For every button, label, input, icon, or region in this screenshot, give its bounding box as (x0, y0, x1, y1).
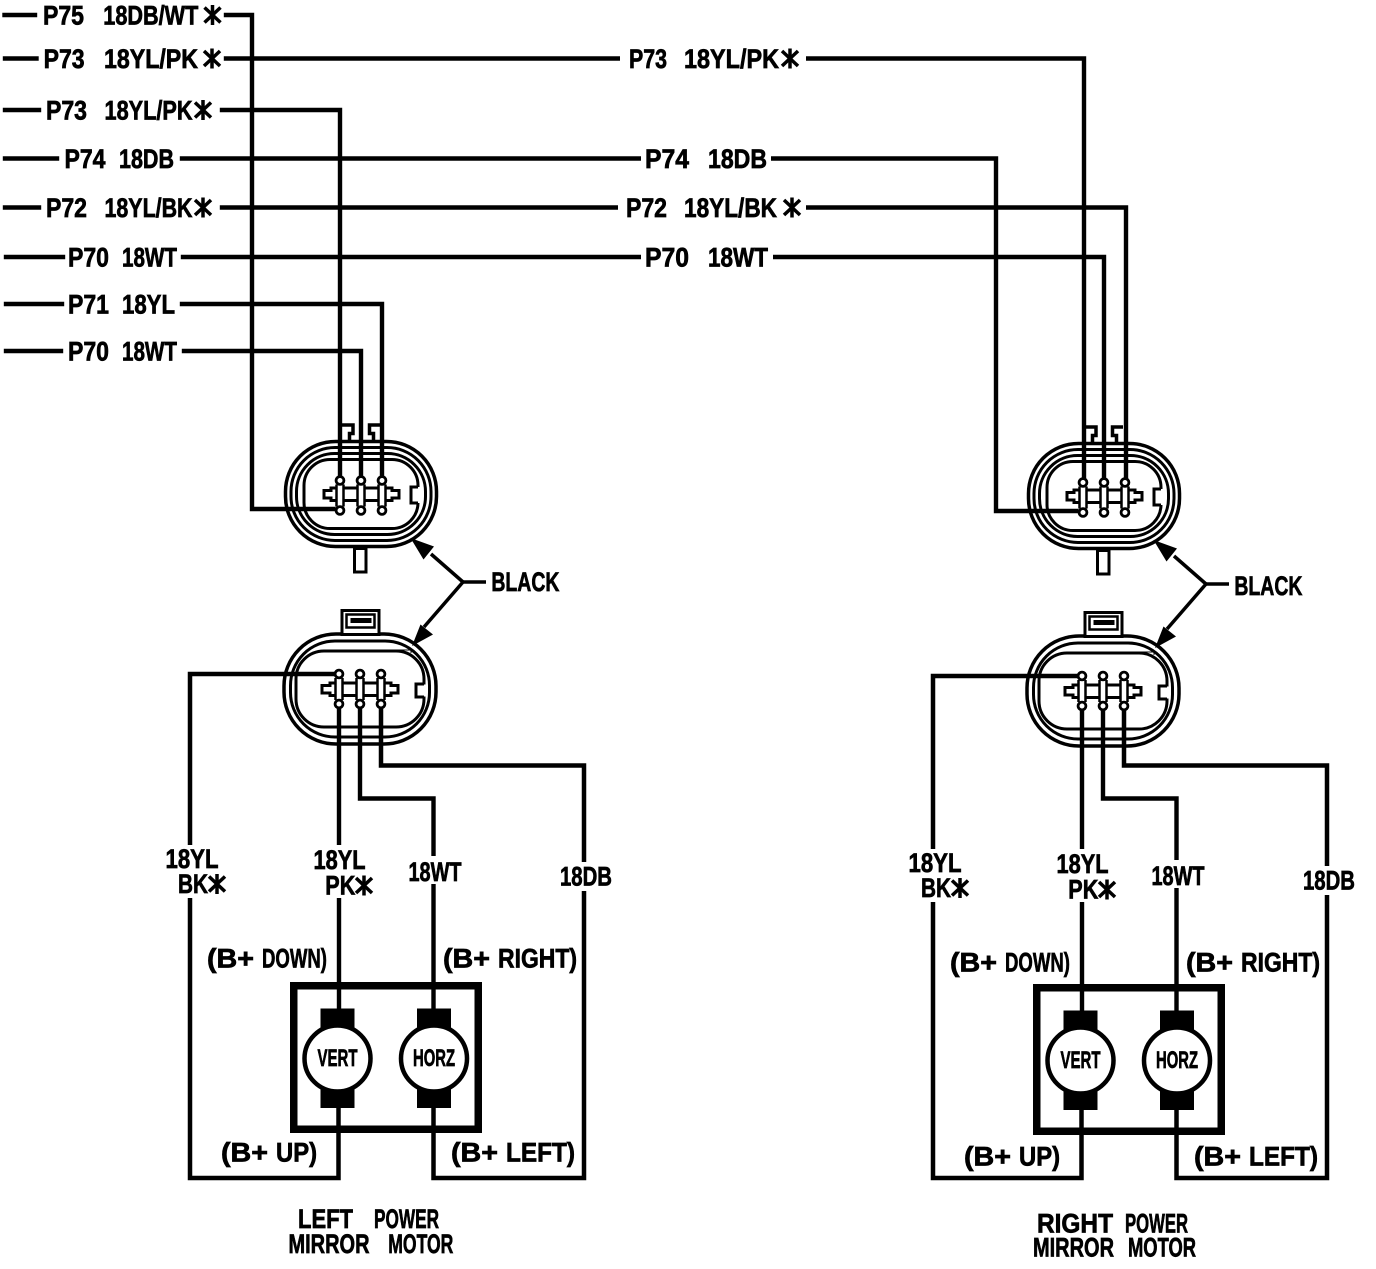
svg-text:18WT: 18WT (122, 337, 177, 367)
svg-text:P73: P73 (46, 96, 87, 126)
svg-text:18DB: 18DB (1303, 866, 1355, 896)
svg-text:18WT: 18WT (409, 857, 462, 887)
svg-text:PK: PK (1068, 875, 1098, 905)
svg-text:(B+: (B+ (1194, 1142, 1241, 1172)
svg-text:18DB: 18DB (708, 144, 767, 174)
svg-text:PK: PK (325, 871, 355, 901)
svg-text:UP): UP) (276, 1138, 317, 1168)
svg-text:18YL/BK: 18YL/BK (105, 193, 193, 223)
svg-text:18WT: 18WT (1152, 861, 1205, 891)
svg-text:LEFT): LEFT) (1249, 1142, 1318, 1172)
svg-text:LEFT): LEFT) (506, 1138, 575, 1168)
svg-text:(B+: (B+ (221, 1138, 268, 1168)
svg-text:18WT: 18WT (708, 243, 768, 273)
svg-text:(B+: (B+ (207, 944, 254, 974)
svg-text:P73: P73 (44, 44, 85, 74)
svg-text:UP): UP) (1019, 1142, 1060, 1172)
svg-text:P70: P70 (68, 243, 109, 273)
svg-text:18YL/PK: 18YL/PK (105, 96, 193, 126)
svg-text:BLACK: BLACK (1234, 571, 1302, 601)
svg-text:RIGHT): RIGHT) (1241, 948, 1320, 978)
svg-text:RIGHT): RIGHT) (498, 944, 577, 974)
svg-text:VERT: VERT (1061, 1047, 1101, 1074)
svg-text:18DB: 18DB (560, 862, 612, 892)
svg-text:(B+: (B+ (443, 944, 490, 974)
svg-text:P75: P75 (43, 1, 84, 31)
svg-text:(B+: (B+ (964, 1142, 1011, 1172)
svg-text:P74: P74 (645, 144, 689, 174)
svg-text:DOWN): DOWN) (1005, 948, 1070, 978)
svg-text:18YL/PK: 18YL/PK (684, 44, 779, 74)
svg-text:P72: P72 (626, 193, 667, 223)
svg-text:BLACK: BLACK (491, 567, 559, 597)
svg-text:HORZ: HORZ (1156, 1047, 1198, 1074)
svg-text:MIRROR: MIRROR (1033, 1233, 1114, 1263)
svg-text:18YL/BK: 18YL/BK (684, 193, 777, 223)
svg-text:MOTOR: MOTOR (1128, 1233, 1196, 1263)
svg-text:(B+: (B+ (1186, 948, 1233, 978)
svg-text:P70: P70 (68, 337, 109, 367)
svg-text:(B+: (B+ (451, 1138, 498, 1168)
svg-text:P74: P74 (65, 144, 106, 174)
svg-text:P70: P70 (645, 243, 689, 273)
svg-text:MOTOR: MOTOR (388, 1229, 453, 1259)
svg-text:18DB: 18DB (119, 144, 174, 174)
svg-text:18DB/WT: 18DB/WT (103, 1, 198, 31)
svg-text:BK: BK (921, 873, 951, 903)
svg-text:VERT: VERT (318, 1045, 358, 1072)
svg-text:HORZ: HORZ (413, 1045, 455, 1072)
svg-text:18YL/PK: 18YL/PK (104, 44, 198, 74)
svg-text:18WT: 18WT (122, 243, 177, 273)
svg-text:(B+: (B+ (950, 948, 997, 978)
svg-text:P72: P72 (46, 193, 87, 223)
svg-text:BK: BK (178, 869, 208, 899)
svg-text:18YL: 18YL (122, 290, 175, 320)
svg-text:P73: P73 (629, 44, 667, 74)
svg-text:DOWN): DOWN) (262, 944, 327, 974)
svg-text:P71: P71 (68, 290, 109, 320)
svg-text:MIRROR: MIRROR (289, 1229, 370, 1259)
